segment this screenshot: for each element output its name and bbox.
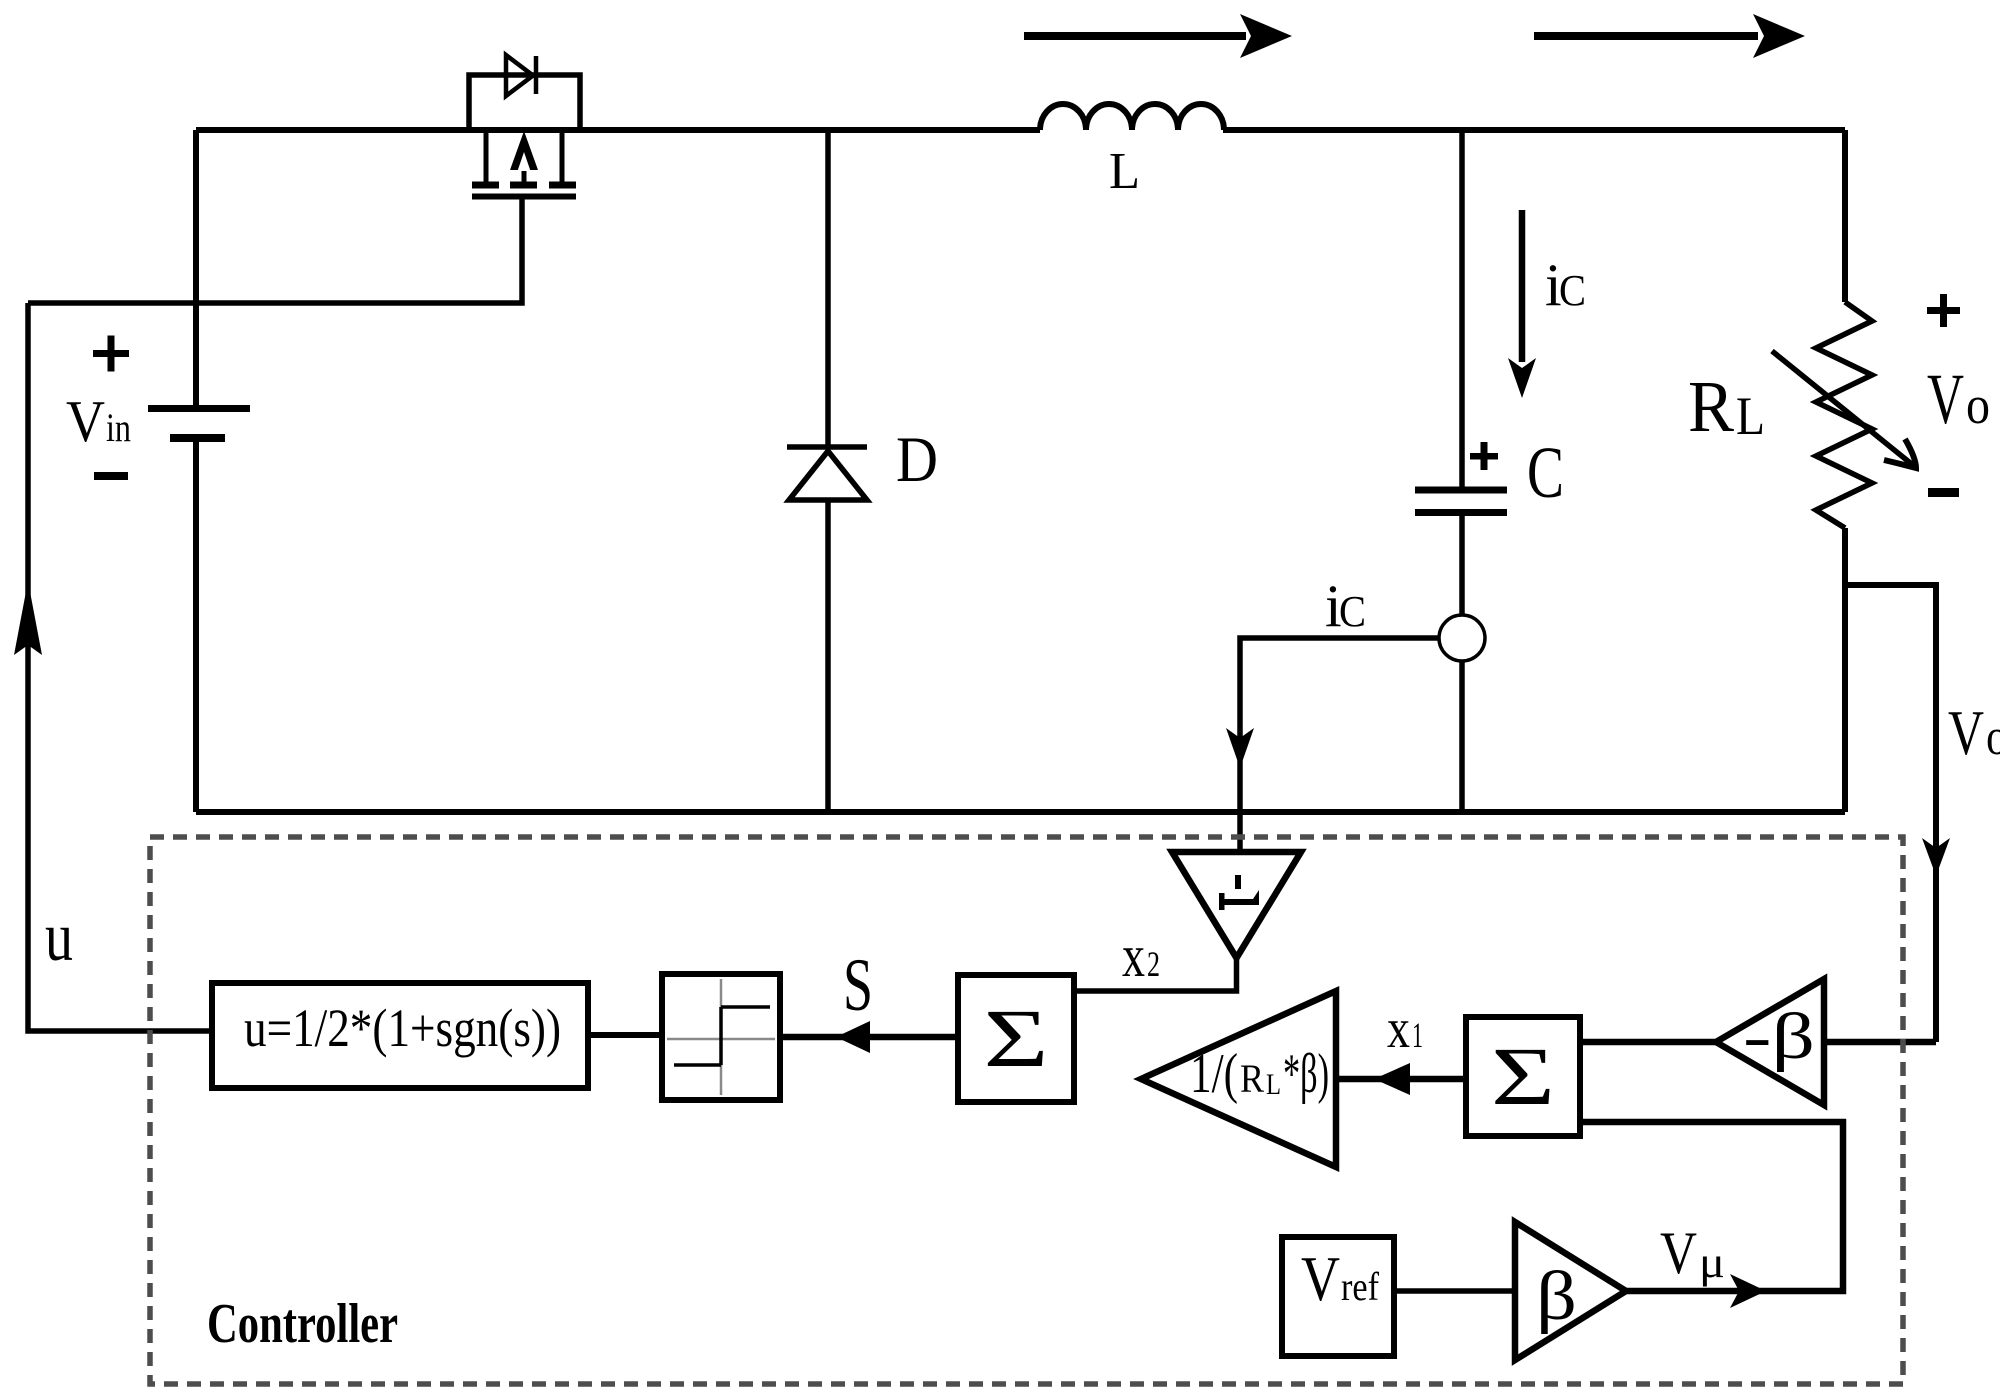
svg-text:D: D [896, 424, 938, 496]
body diode of Q1 [506, 55, 536, 96]
svg-text:1/(: 1/( [1190, 1043, 1238, 1105]
summer block S2 [1466, 1017, 1580, 1136]
transistor Q1 (MOSFET) [472, 130, 576, 197]
svg-text:L: L [1736, 386, 1765, 446]
wire Vo into -beta [1824, 1039, 1936, 1046]
svg-text:u: u [45, 899, 73, 976]
wire node to capacitor C [1459, 130, 1465, 487]
svg-text:μ: μ [1699, 1238, 1725, 1287]
battery Vin bottom plate [170, 434, 225, 442]
svg-text:x: x [1387, 998, 1410, 1060]
svg-text:C: C [1527, 432, 1564, 513]
label + (Vin) [93, 336, 129, 372]
wire C to current sensor [1459, 516, 1465, 615]
svg-text:2: 2 [1147, 944, 1160, 984]
arrow iC (capacitor current) [1508, 210, 1536, 398]
svg-text:o: o [1986, 709, 2000, 766]
wire bottom rail [196, 809, 1845, 815]
arrow head Vo sense (down) [1922, 838, 1950, 876]
arrow head u (pointing up) [14, 581, 42, 655]
wire RL bottom to bottom rail [1842, 528, 1848, 812]
resistor RL wire from top rail [1842, 130, 1848, 302]
hysteresis block [662, 974, 780, 1100]
diode D [787, 447, 867, 500]
svg-text:o: o [1966, 375, 1990, 435]
wire top rail right segment [1223, 127, 1845, 133]
control-law block u=1/2*(1+sgn(s)) [212, 983, 588, 1088]
svg-text:x: x [1122, 923, 1145, 989]
wire u feedback to gate [28, 303, 212, 1031]
diode D anode/cathode wires [825, 130, 831, 812]
svg-text:*β): *β) [1283, 1043, 1329, 1105]
battery Vin top plate [148, 405, 250, 412]
svg-text:Σ: Σ [1491, 1030, 1555, 1122]
current sensor (circle) [1439, 615, 1485, 661]
label - (Vin) [94, 472, 128, 480]
block Vref [1282, 1237, 1394, 1356]
svg-text:V: V [1927, 359, 1964, 439]
svg-text:C: C [1559, 266, 1586, 315]
wire battery to bottom rail [193, 442, 199, 812]
summer block S1 [958, 975, 1074, 1102]
wire inverter output to x2 node [1074, 958, 1237, 991]
svg-text:C: C [1339, 587, 1366, 636]
wire top rail left segment [196, 127, 1040, 133]
svg-text:1: 1 [1412, 1015, 1423, 1055]
wire sensor to bottom rail [1459, 661, 1465, 812]
wire iC sense from sensor [1240, 638, 1439, 851]
op-amp -1 inverter triangle [1172, 852, 1301, 958]
wire Vmu from beta to summer S2 [1580, 1122, 1843, 1291]
hysteresis step curve [674, 1007, 770, 1065]
label -1 (rotated) inside inverter [1219, 875, 1259, 910]
wire Vo sense tap [1845, 585, 1936, 1042]
label - (Vo right) [1928, 488, 1959, 497]
svg-text:R: R [1240, 1056, 1264, 1101]
gain beta triangle [1515, 1222, 1626, 1360]
svg-text:V: V [1301, 1244, 1340, 1314]
svg-text:L: L [1109, 143, 1140, 200]
resistor RL (variable) [1816, 302, 1872, 528]
svg-text:R: R [1688, 366, 1734, 447]
wire left rail down from top wire [193, 130, 199, 405]
hysteresis axes (gray) [667, 979, 775, 1095]
svg-text:S: S [843, 944, 873, 1027]
svg-text:ref: ref [1341, 1264, 1380, 1309]
op-amp -beta triangle [1716, 979, 1824, 1105]
svg-text:-β: -β [1743, 1000, 1815, 1073]
inductor L [1040, 104, 1224, 130]
arrow across RL (variable) [1772, 351, 1916, 468]
wire x1 from summer S2 to gain [1336, 1076, 1466, 1083]
wire gate of Q1 to left rail [28, 199, 522, 303]
arrow head x1 (pointing left) [1374, 1063, 1410, 1095]
capacitor C [1415, 490, 1507, 513]
transistor Q1 body-diode loop [469, 75, 580, 130]
wire S from summer S1 to hysteresis [780, 1034, 958, 1041]
svg-text:Σ: Σ [984, 992, 1049, 1084]
current arrow (inductor current) [1024, 14, 1292, 58]
arrow head S (pointing left) [836, 1021, 870, 1053]
svg-text:V: V [66, 388, 105, 454]
svg-text:u=1/2*(1+sgn(s)): u=1/2*(1+sgn(s)) [244, 998, 561, 1058]
wire Vref to beta gain [1394, 1288, 1515, 1294]
arrow head on iC sense wire [1226, 728, 1254, 768]
svg-text:in: in [106, 405, 131, 450]
wire -beta output to summer S2 [1580, 1039, 1716, 1046]
svg-text:V: V [1660, 1220, 1697, 1286]
svg-text:β: β [1536, 1258, 1577, 1335]
label + (C) [1470, 442, 1498, 470]
arrow head Vmu (pointing right) [1730, 1274, 1766, 1308]
svg-text:Controller: Controller [207, 1293, 398, 1355]
svg-text:L: L [1266, 1068, 1281, 1101]
label + (Vo right) [1927, 294, 1960, 327]
wire hysteresis to u block [588, 1032, 662, 1038]
current arrow (load current) [1534, 14, 1805, 58]
gain 1/(RL*beta) triangle [1141, 991, 1336, 1167]
controller dashed box [150, 837, 1903, 1384]
svg-text:V: V [1948, 697, 1984, 768]
